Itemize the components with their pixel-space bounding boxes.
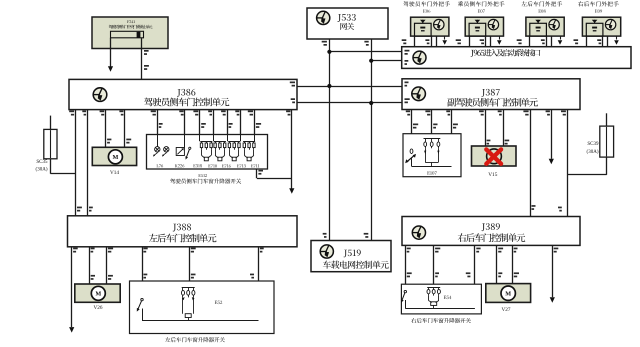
E54 internal bus bbox=[405, 308, 475, 310]
wire J388 to E52 switch bbox=[142, 247, 144, 299]
door control unit front passenger side J387 bbox=[402, 79, 580, 110]
wire J387 to J389 bbox=[530, 110, 532, 217]
onboard supply control unit J519 bbox=[311, 241, 391, 272]
wire J388 to V26 left bbox=[89, 247, 91, 289]
door control unit rear left J388 bbox=[68, 216, 298, 247]
wire fuse SC35 to supply wire bbox=[50, 173, 75, 175]
E09 sensor icon bbox=[605, 19, 615, 29]
wire J389 continuation arrow bbox=[552, 245, 554, 297]
switch E318 bbox=[189, 147, 191, 149]
E54 switch contact bbox=[404, 290, 406, 292]
E08 sensor icon bbox=[549, 19, 559, 29]
E52 internal bus bbox=[142, 320, 259, 322]
wires E07 to J965 bbox=[469, 36, 471, 47]
wire CAN branch to J965 pin 1 bbox=[329, 51, 401, 53]
wire CAN branch to J965 pin 2 bbox=[371, 60, 402, 62]
E107 internal bus bbox=[412, 166, 452, 168]
svg-text:M: M bbox=[505, 290, 511, 297]
wire CAN J386 to J387 low bbox=[297, 102, 402, 104]
window switch E710 bbox=[199, 135, 201, 142]
wire J387 to V15 left bbox=[485, 110, 487, 156]
J387 bottom pin labels bbox=[406, 111, 410, 113]
window motor V27 bbox=[486, 284, 531, 303]
wire J388 to E52 comb bbox=[189, 247, 191, 288]
wire F241 to J386 pin bbox=[141, 38, 143, 80]
fuse SC35 30A bbox=[50, 116, 52, 174]
E107 resistor contacts bbox=[424, 138, 441, 140]
E06 sensor icon bbox=[434, 19, 444, 29]
E06 micro switch bbox=[415, 23, 432, 36]
entry and start system interface J965 bbox=[402, 47, 631, 69]
wire J389 to E54 comb bbox=[433, 245, 435, 287]
E54 comb contacts bbox=[427, 287, 440, 289]
wire J387 continuation arrow bbox=[551, 110, 553, 159]
wire J389 to V27 right bbox=[512, 245, 514, 291]
wire F241 to ground arrow bbox=[110, 38, 112, 68]
labels above J519 bbox=[323, 233, 327, 235]
window switch E716 bbox=[213, 135, 215, 142]
wire J386 to V14 right bbox=[124, 110, 126, 153]
wire J389 to E54 right bbox=[474, 245, 476, 308]
door outer handle E08 bbox=[522, 1, 563, 6]
door control unit rear right J389 bbox=[402, 217, 580, 246]
svg-text:SC35: SC35 bbox=[36, 160, 48, 165]
wire J386 to J388 supply bbox=[75, 110, 77, 216]
J965 left edge pin labels bbox=[405, 50, 410, 52]
E09 micro switch bbox=[586, 23, 603, 36]
wire J387 to E107 common bbox=[451, 110, 453, 167]
svg-text:M: M bbox=[95, 291, 101, 298]
node CAN junction bbox=[327, 50, 331, 54]
wire CAN J386 to J387 high bbox=[297, 86, 402, 88]
wires E09 to J965 bbox=[586, 36, 588, 47]
door outer handle E09 bbox=[578, 1, 619, 6]
central locking motor V14 bbox=[92, 147, 136, 165]
E52 switch contact bbox=[141, 298, 143, 300]
E52 caption bbox=[165, 337, 225, 342]
svg-text:(30A): (30A) bbox=[36, 168, 48, 173]
wire J387 to E107 resistors bbox=[431, 110, 433, 139]
pin labels under J533 bbox=[322, 41, 327, 43]
wire J386 to V14 left bbox=[105, 110, 107, 153]
wires J386 to E512 bbox=[157, 110, 159, 135]
lamp L76 bbox=[157, 135, 159, 147]
E08 micro switch bbox=[530, 23, 547, 36]
node CAN junction bbox=[327, 84, 331, 88]
window switch E711 bbox=[240, 135, 242, 142]
window switch E713 bbox=[227, 135, 229, 142]
motor V15 not fitted bbox=[472, 146, 517, 166]
ground arrow bbox=[289, 188, 294, 194]
wire J387 to V15 right bbox=[503, 110, 505, 156]
node CAN junction bbox=[369, 101, 373, 105]
E512 extra feed bbox=[254, 135, 256, 142]
wire fuse SC39 to supply bbox=[567, 174, 606, 176]
wires E06 to J965 bbox=[414, 36, 416, 47]
door outer handle E07 bbox=[458, 1, 505, 6]
wire J388 continuation arrow bbox=[71, 247, 73, 327]
E07 sensor icon bbox=[488, 19, 498, 29]
lock unit switch E107 bbox=[403, 134, 461, 177]
svg-text:SC39: SC39 bbox=[587, 142, 599, 147]
J388 bottom pin labels bbox=[73, 248, 78, 250]
door outer handle E06 bbox=[403, 1, 450, 6]
wires E08 to J965 bbox=[529, 36, 531, 47]
wire CAN high J533 to J519 bbox=[329, 39, 331, 241]
wire J387 supply to J389 bbox=[567, 110, 569, 217]
labels above J388 bbox=[77, 207, 82, 209]
gateway J533 bbox=[307, 8, 388, 39]
window lifter switch module E512 bbox=[147, 135, 268, 170]
wire J386 to J388 signal bbox=[87, 110, 89, 216]
central locking motor V26 bbox=[75, 284, 120, 302]
svg-text:V15: V15 bbox=[488, 172, 497, 178]
E54 caption bbox=[411, 318, 471, 323]
E107 label bbox=[427, 171, 436, 174]
J389 bottom pin labels bbox=[407, 248, 411, 250]
E52 comb contacts bbox=[182, 287, 195, 289]
fuse SC39 30A bbox=[606, 113, 608, 175]
J386 bottom pin labels bbox=[69, 111, 74, 113]
E07 micro switch bbox=[469, 23, 486, 36]
J387 CAN pin labels bbox=[405, 82, 409, 84]
wire J389 to E54 switch bbox=[405, 245, 407, 290]
door control unit driver side J386 bbox=[69, 79, 297, 109]
F241 inner contact loop bbox=[111, 31, 144, 38]
svg-text:V26: V26 bbox=[94, 305, 103, 311]
svg-text:M: M bbox=[112, 154, 118, 161]
E107 switch contact bbox=[410, 149, 413, 154]
wire J389 to V27 left bbox=[496, 245, 498, 291]
svg-text:(30A): (30A) bbox=[587, 150, 599, 155]
wire J388 to E52 right bbox=[258, 247, 260, 320]
wire J388 to V26 right bbox=[106, 247, 108, 289]
window lifter switch E54 bbox=[401, 284, 481, 314]
svg-text:V14: V14 bbox=[110, 170, 119, 176]
wire to ground arrow bbox=[257, 178, 292, 180]
LED K226 bbox=[184, 135, 186, 148]
window lifter switch E52 bbox=[130, 281, 275, 334]
J386 CAN pin labels bbox=[290, 82, 295, 84]
svg-text:V27: V27 bbox=[502, 307, 511, 313]
wire CAN low J533 to J519 bbox=[371, 39, 373, 241]
node CAN junction bbox=[369, 59, 373, 63]
wire E512 ground pin bbox=[256, 169, 258, 178]
wire J387 to E107 switch bbox=[411, 110, 413, 150]
switch unit F241 driver door lock unit bbox=[92, 17, 168, 49]
